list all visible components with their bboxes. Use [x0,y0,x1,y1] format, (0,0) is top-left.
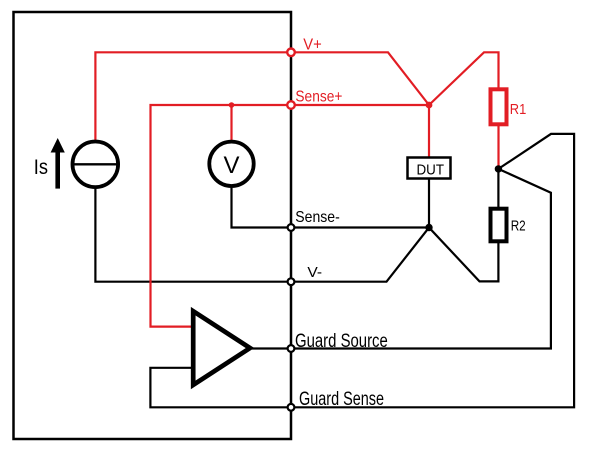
svg-text:DUT: DUT [417,162,445,179]
svg-text:Guard Source: Guard Source [295,331,388,352]
svg-text:V-: V- [307,264,322,281]
svg-text:Guard Sense: Guard Sense [299,389,384,410]
svg-text:V: V [223,152,239,179]
svg-text:R2: R2 [511,218,526,235]
svg-text:Sense+: Sense+ [295,89,342,106]
svg-text:Sense-: Sense- [295,209,340,226]
svg-text:Is: Is [34,156,48,179]
svg-text:R1: R1 [510,102,527,118]
svg-text:V+: V+ [303,37,322,54]
